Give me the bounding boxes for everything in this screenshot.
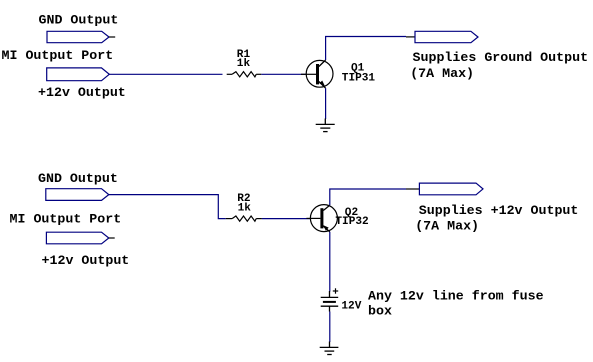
- svg-text:box: box: [368, 304, 392, 319]
- svg-text:Supplies Ground Output: Supplies Ground Output: [413, 50, 589, 65]
- svg-text:12V: 12V: [341, 300, 361, 312]
- svg-text:Any 12v line from fuse: Any 12v line from fuse: [368, 289, 544, 304]
- ground (under battery): [320, 342, 339, 355]
- wire Q2 collector up: [330, 189, 406, 205]
- svg-text:MI Output Port: MI Output Port: [2, 48, 114, 63]
- svg-text:GND Output: GND Output: [38, 171, 118, 186]
- svg-text:TIP31: TIP31: [342, 72, 376, 84]
- pin stub of P1: [109, 36, 115, 38]
- resistor R2: [226, 216, 262, 221]
- wire battery to ground: [329, 312, 331, 343]
- wire P4 tip right then down to R2: [109, 195, 226, 219]
- wire Q2 emitter down to battery: [329, 232, 331, 292]
- svg-text:MI Output Port: MI Output Port: [10, 211, 122, 226]
- battery B1 12V: [321, 291, 339, 312]
- wire P2 tip to R1: [109, 73, 222, 75]
- svg-text:+12v Output: +12v Output: [42, 253, 130, 268]
- port connector P6 Supplies +12v Output: [419, 183, 483, 195]
- ground (under Q1): [316, 119, 335, 132]
- port connector P5 +12v Output (bottom, unconnected): [46, 232, 108, 244]
- port connector P1 GND Output (top, unconnected): [47, 31, 109, 42]
- port connector P3 Supplies Ground Output: [415, 31, 478, 42]
- pin stub of P5: [109, 237, 115, 239]
- wire Q1 emitter down: [325, 88, 327, 119]
- transistor Q2 (PNP TIP32): [306, 205, 337, 232]
- svg-text:TIP32: TIP32: [335, 216, 368, 228]
- svg-text:(7A Max): (7A Max): [410, 66, 474, 81]
- wire R1 to Q1 base: [261, 73, 306, 75]
- svg-text:1k: 1k: [237, 58, 251, 70]
- svg-text:Supplies +12v Output: Supplies +12v Output: [419, 203, 579, 218]
- svg-text:(7A Max): (7A Max): [415, 219, 479, 234]
- pin stub of P6: [406, 188, 419, 190]
- plus sign of battery: [333, 288, 338, 293]
- resistor R1: [227, 72, 262, 77]
- pin stub of P3: [406, 36, 415, 38]
- transistor Q1 (NPN TIP31): [301, 60, 333, 88]
- wire R2 to Q2 base: [262, 218, 310, 220]
- port connector P2 +12v Output (top): [47, 68, 110, 81]
- svg-text:+12v Output: +12v Output: [38, 85, 126, 100]
- port connector P4 GND Output (bottom): [46, 189, 109, 201]
- svg-text:1k: 1k: [238, 203, 252, 215]
- wire Q1 collector up: [326, 37, 406, 61]
- svg-text:GND Output: GND Output: [39, 12, 119, 27]
